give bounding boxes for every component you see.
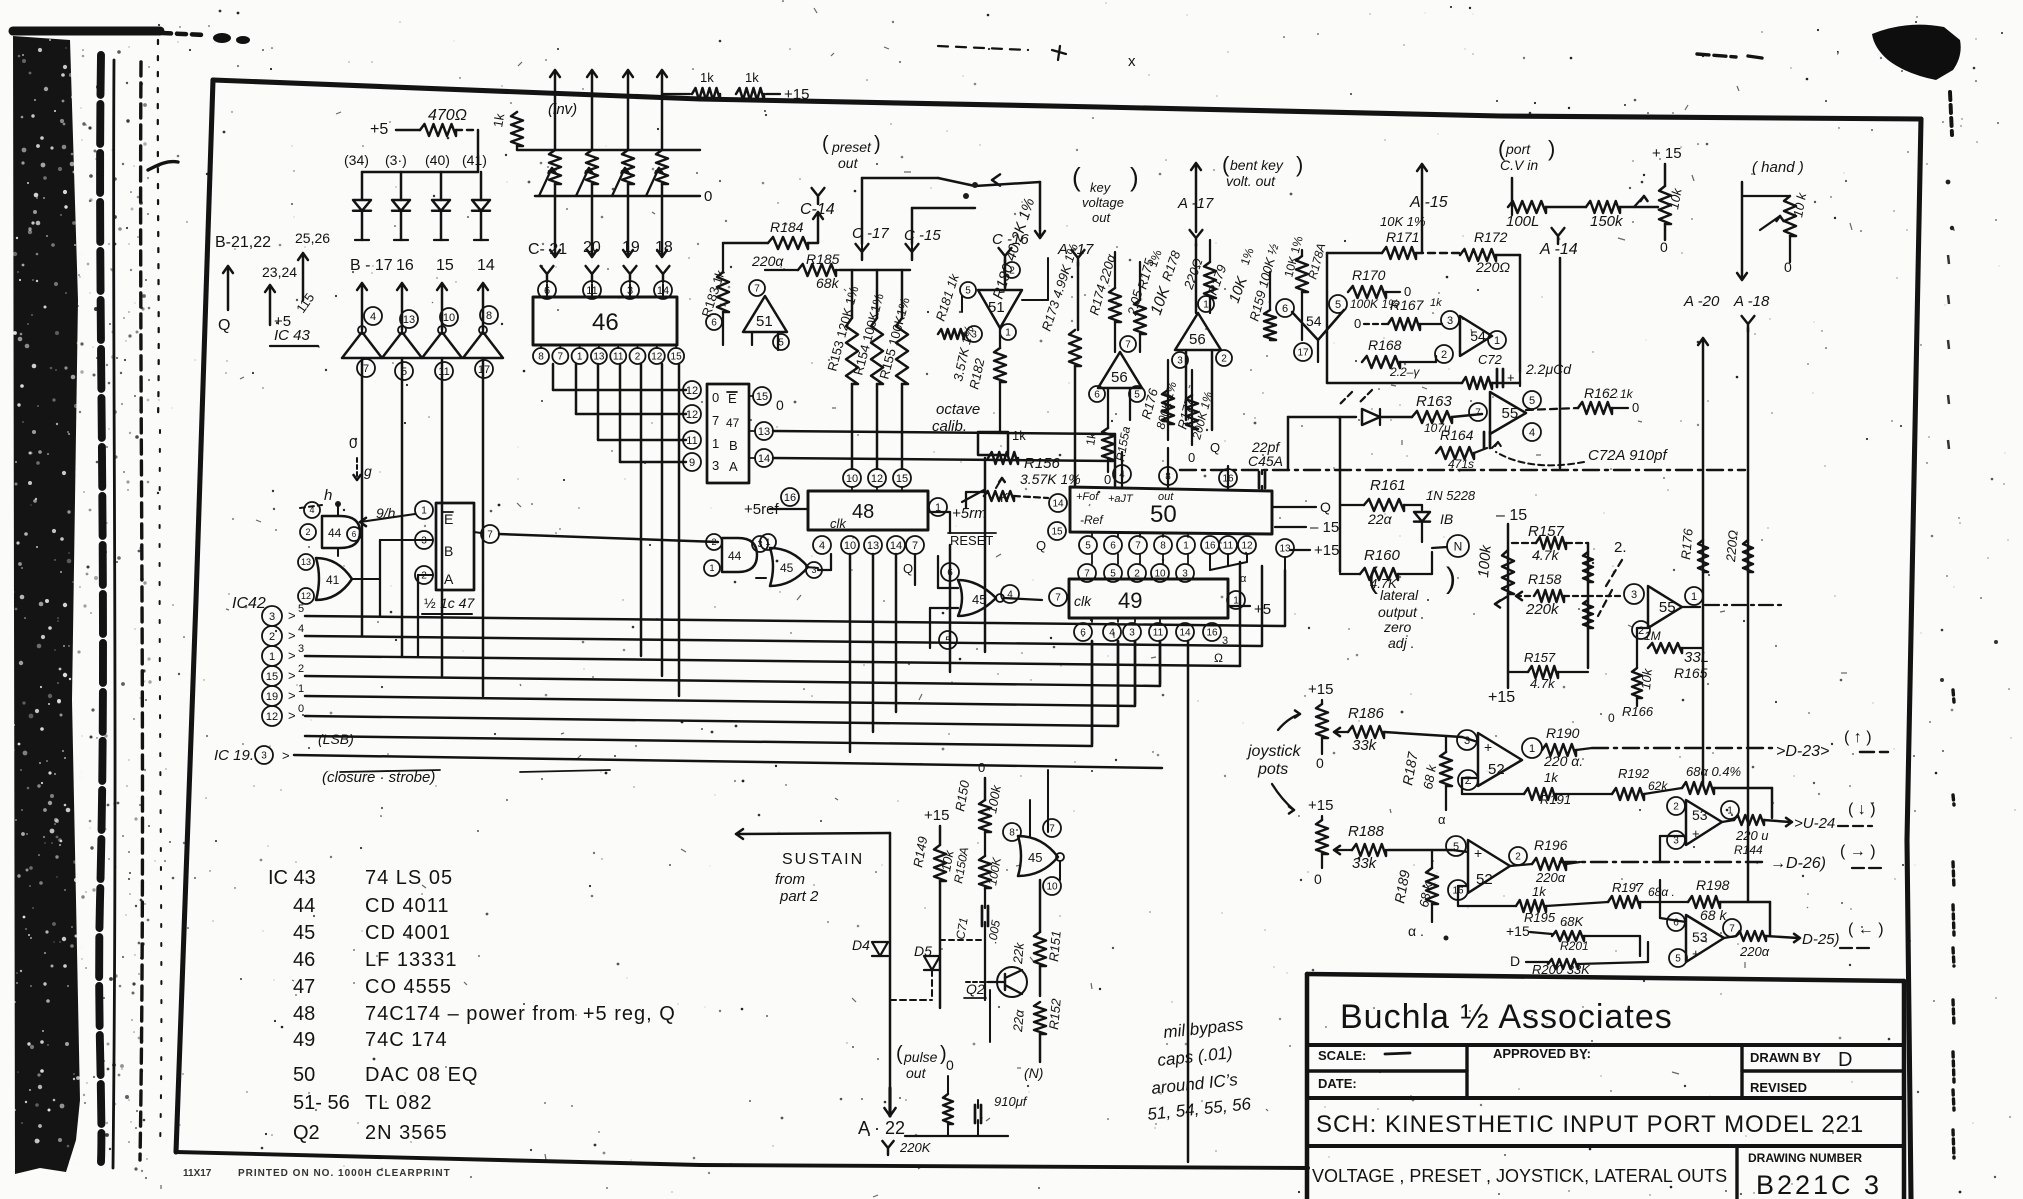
svg-text:key: key [1090, 180, 1112, 195]
svg-text:+: + [1474, 845, 1482, 861]
svg-text:14: 14 [890, 540, 902, 552]
svg-text:>: > [288, 608, 296, 623]
svg-text:6: 6 [711, 318, 717, 329]
svg-text:joystick: joystick [1246, 743, 1301, 760]
svg-text:48: 48 [852, 501, 874, 523]
svg-text:12: 12 [686, 409, 698, 421]
svg-text:53: 53 [1692, 807, 1708, 823]
svg-text:0: 0 [1316, 755, 1324, 771]
svg-text:R158: R158 [1528, 571, 1562, 587]
svg-text:7: 7 [558, 352, 564, 363]
svg-text:E: E [728, 391, 737, 406]
svg-text:68K: 68K [1560, 914, 1584, 929]
svg-text:74 LS 05: 74 LS 05 [365, 867, 453, 889]
svg-text:A: A [729, 459, 738, 474]
svg-text:CD 4011: CD 4011 [365, 895, 449, 917]
svg-text:45: 45 [972, 592, 986, 607]
svg-text:1k: 1k [700, 70, 714, 85]
svg-text:A: A [444, 571, 454, 587]
svg-text:α: α [1438, 812, 1446, 827]
svg-text:out: out [906, 1065, 927, 1081]
svg-text:11: 11 [1223, 541, 1234, 552]
svg-text:7: 7 [912, 540, 918, 552]
svg-text:+: + [1484, 739, 1492, 755]
svg-text:2: 2 [1009, 266, 1015, 277]
svg-text:TL 082: TL 082 [365, 1092, 433, 1114]
svg-text:0: 0 [1314, 871, 1322, 887]
svg-text:+aJT: +aJT [1108, 493, 1134, 505]
svg-text:1: 1 [577, 352, 583, 363]
svg-text:1: 1 [765, 537, 770, 547]
svg-text:46: 46 [592, 309, 619, 336]
svg-text:0: 0 [704, 188, 712, 205]
svg-text:22α: 22α [1367, 511, 1393, 527]
svg-text:220α: 220α [1535, 870, 1566, 885]
svg-text:5: 5 [298, 603, 304, 615]
svg-text:68 k: 68 k [1700, 907, 1727, 923]
svg-text:adj .: adj . [1388, 635, 1414, 651]
svg-text:74C174 – power from +5 reg, Q: 74C174 – power from +5 reg, Q [365, 1003, 676, 1025]
svg-text:B - 17: B - 17 [350, 257, 393, 274]
svg-text:2: 2 [1515, 852, 1521, 863]
svg-text:IC 43: IC 43 [268, 867, 316, 889]
svg-text:8: 8 [1009, 828, 1015, 839]
svg-text:clk: clk [830, 516, 847, 531]
svg-text:x: x [1128, 53, 1136, 70]
svg-text:): ) [1296, 152, 1303, 177]
svg-text:DATE:: DATE: [1318, 1076, 1357, 1091]
svg-text:68α 0.4%: 68α 0.4% [1686, 764, 1741, 779]
svg-text:6: 6 [947, 568, 953, 579]
svg-text:15: 15 [436, 257, 454, 274]
svg-text:8: 8 [538, 352, 544, 363]
svg-text:): ) [1548, 136, 1555, 161]
svg-text:14: 14 [758, 453, 770, 465]
svg-text:(LSB): (LSB) [318, 731, 354, 747]
svg-text:1: 1 [1727, 806, 1733, 817]
svg-text:15: 15 [671, 352, 683, 363]
svg-text:0: 0 [776, 397, 784, 413]
svg-text:A -18: A -18 [1733, 293, 1770, 310]
svg-text:>: > [288, 708, 296, 723]
svg-text:D-25): D-25) [1802, 931, 1840, 948]
svg-text:46: 46 [293, 949, 315, 971]
svg-text:(: ( [822, 133, 829, 155]
svg-text:Q: Q [1036, 538, 1046, 553]
svg-text:(inv): (inv) [548, 101, 577, 118]
svg-text:19: 19 [622, 239, 640, 256]
svg-text:( ↓ ): ( ↓ ) [1848, 801, 1876, 818]
svg-text:3: 3 [712, 458, 719, 473]
svg-text:3: 3 [1177, 356, 1183, 367]
svg-text:220K: 220K [899, 1140, 932, 1155]
svg-text:15: 15 [266, 671, 278, 683]
svg-text:2: 2 [711, 537, 716, 547]
svg-text:10: 10 [443, 312, 455, 324]
svg-text:– 15: – 15 [1496, 507, 1527, 524]
svg-text:4: 4 [1109, 628, 1115, 639]
svg-text:33L: 33L [1684, 649, 1709, 666]
svg-text:18: 18 [655, 239, 673, 256]
svg-text:D: D [1838, 1049, 1852, 1071]
svg-text:(: ( [1072, 162, 1081, 192]
svg-text:12: 12 [686, 385, 698, 397]
svg-text:2: 2 [1673, 802, 1679, 813]
svg-text:220 α.: 220 α. [1543, 753, 1583, 769]
svg-text:R162: R162 [1584, 385, 1618, 401]
svg-text:( hand ): ( hand ) [1752, 159, 1804, 176]
svg-text:50: 50 [293, 1064, 315, 1086]
svg-text:calib.: calib. [932, 418, 967, 435]
svg-text:33k: 33k [1352, 855, 1378, 872]
svg-text:1: 1 [298, 683, 304, 695]
svg-text:2: 2 [421, 571, 427, 582]
svg-text:2.2μCd: 2.2μCd [1525, 361, 1572, 377]
svg-text:55: 55 [1659, 599, 1676, 616]
svg-text:): ) [1446, 562, 1456, 595]
svg-text:12: 12 [651, 352, 663, 363]
svg-text:220α: 220α [751, 253, 784, 269]
svg-text:pulse: pulse [903, 1049, 938, 1065]
svg-text:13: 13 [301, 557, 311, 567]
svg-text:lateral: lateral [1380, 587, 1419, 603]
svg-text:7: 7 [1475, 408, 1481, 419]
svg-text:4.7k: 4.7k [1532, 547, 1559, 563]
svg-text:+15: +15 [784, 86, 809, 103]
svg-text:15: 15 [896, 473, 908, 485]
svg-text:11: 11 [613, 352, 624, 363]
svg-text:C72A 910pf: C72A 910pf [1588, 447, 1669, 464]
svg-text:(: ( [896, 1043, 903, 1065]
svg-text:5: 5 [1335, 299, 1341, 311]
svg-text:0: 0 [349, 435, 357, 452]
svg-text:50: 50 [1150, 501, 1177, 528]
svg-text:h: h [324, 487, 332, 504]
svg-text:11: 11 [686, 435, 697, 447]
svg-text:R190: R190 [1546, 725, 1580, 741]
svg-text:+: + [1692, 826, 1700, 841]
svg-text:13: 13 [403, 314, 415, 326]
svg-text:out: out [1092, 210, 1111, 225]
svg-text:3: 3 [1447, 315, 1453, 327]
svg-text:1N 5228: 1N 5228 [1426, 488, 1476, 503]
svg-text:0: 0 [1608, 711, 1615, 725]
svg-text:7: 7 [487, 530, 493, 541]
svg-text:0: 0 [712, 390, 719, 405]
svg-text:R197: R197 [1612, 880, 1644, 895]
svg-text:pots: pots [1257, 761, 1288, 778]
svg-text:α .: α . [1408, 923, 1424, 939]
svg-text:B: B [729, 438, 738, 453]
svg-text:>: > [288, 648, 296, 663]
svg-text:0: 0 [1632, 400, 1639, 415]
svg-text:C.V in: C.V in [1500, 157, 1538, 173]
svg-text:1: 1 [1494, 335, 1500, 347]
svg-text:0: 0 [1354, 316, 1361, 331]
svg-text:voltage: voltage [1082, 195, 1124, 210]
svg-text:220α: 220α [1739, 944, 1770, 959]
svg-text:(N): (N) [1024, 1065, 1043, 1081]
svg-text:C -17: C -17 [852, 225, 889, 242]
svg-text:2: 2 [1221, 354, 1227, 365]
svg-text:+Fof: +Fof [1076, 491, 1099, 503]
svg-text:Q: Q [1320, 499, 1331, 515]
svg-text:11: 11 [1153, 628, 1164, 639]
svg-text:3: 3 [421, 536, 427, 547]
svg-text:SUSTAIN: SUSTAIN [782, 851, 864, 868]
svg-text:470Ω: 470Ω [428, 107, 467, 124]
svg-text:53: 53 [1692, 929, 1708, 945]
svg-text:44: 44 [328, 526, 342, 540]
svg-text:9: 9 [689, 457, 695, 469]
svg-text:3: 3 [298, 643, 304, 655]
svg-text:3: 3 [261, 751, 267, 762]
svg-text:+15: +15 [1488, 689, 1515, 706]
svg-text:REVISED: REVISED [1750, 1080, 1807, 1095]
svg-text:16: 16 [1206, 628, 1218, 639]
svg-text:7: 7 [712, 413, 719, 428]
svg-text:4: 4 [1529, 427, 1535, 439]
svg-text:47: 47 [726, 416, 740, 430]
svg-text:16: 16 [396, 257, 414, 274]
svg-text:R171: R171 [1386, 229, 1419, 245]
svg-text:B: B [444, 543, 453, 559]
svg-text:7: 7 [1729, 924, 1735, 935]
svg-text:zero: zero [1383, 619, 1411, 635]
svg-text:49: 49 [1118, 588, 1142, 613]
svg-text:100k: 100k [1475, 543, 1495, 578]
svg-text:C -15: C -15 [904, 227, 941, 244]
svg-text:7: 7 [363, 363, 369, 375]
svg-text:0: 0 [978, 760, 985, 775]
svg-text:10k: 10k [1638, 667, 1655, 691]
svg-text:2: 2 [1441, 349, 1447, 361]
svg-text:5: 5 [1529, 395, 1535, 407]
svg-text:R164: R164 [1440, 427, 1474, 443]
svg-text:DRAWING NUMBER: DRAWING NUMBER [1748, 1151, 1862, 1165]
svg-text:output: output [1378, 604, 1418, 620]
svg-text:74C 174: 74C 174 [365, 1029, 448, 1051]
svg-text:APPROVED BY:: APPROVED BY: [1493, 1046, 1591, 1061]
svg-text:25,26: 25,26 [295, 230, 330, 246]
svg-text:’: ’ [1836, 49, 1840, 66]
svg-text:7: 7 [1125, 340, 1131, 351]
svg-text:3: 3 [269, 611, 275, 623]
svg-text:R157: R157 [1524, 650, 1556, 665]
svg-text:1: 1 [709, 563, 714, 573]
svg-text:5: 5 [1675, 954, 1681, 965]
svg-text:5: 5 [1134, 390, 1140, 401]
svg-text:6: 6 [1080, 628, 1086, 639]
svg-text:( → ): ( → ) [1840, 843, 1876, 860]
svg-text:+15: +15 [1314, 542, 1339, 559]
svg-text:2.: 2. [1614, 539, 1627, 556]
svg-text:910μf: 910μf [994, 1094, 1028, 1109]
svg-text:from: from [775, 871, 805, 888]
svg-text:( ↑ ): ( ↑ ) [1844, 729, 1872, 746]
svg-text:>: > [282, 748, 290, 763]
svg-text:2: 2 [635, 352, 641, 363]
svg-text:IC 43: IC 43 [274, 327, 311, 344]
svg-text:R188: R188 [1348, 823, 1385, 840]
svg-text:4: 4 [819, 540, 825, 552]
svg-text:51: 51 [988, 299, 1005, 316]
svg-text:>D-23>: >D-23> [1776, 743, 1829, 760]
svg-text:10: 10 [1046, 882, 1058, 893]
svg-text:2.2–γ: 2.2–γ [1389, 365, 1420, 379]
svg-text:R167: R167 [1390, 297, 1425, 313]
svg-text:R170: R170 [1352, 267, 1386, 283]
svg-text:A · 22: A · 22 [858, 1118, 905, 1138]
svg-text:7: 7 [1135, 541, 1141, 552]
svg-text:part 2: part 2 [779, 888, 819, 905]
svg-text:52: 52 [1476, 871, 1493, 888]
svg-text:20: 20 [583, 239, 601, 256]
svg-text:12: 12 [266, 711, 278, 723]
svg-text:0: 0 [1188, 450, 1195, 465]
svg-text:1: 1 [269, 651, 275, 663]
svg-text:47: 47 [293, 976, 315, 998]
svg-text:preset: preset [831, 139, 872, 155]
svg-text:3.57K 1%: 3.57K 1% [1020, 471, 1081, 487]
svg-text:56: 56 [1189, 331, 1206, 348]
svg-text:220Ω: 220Ω [1723, 529, 1741, 563]
svg-text:16: 16 [1204, 541, 1216, 552]
svg-text:CD 4001: CD 4001 [365, 922, 451, 944]
svg-text:Buchla ½ Associates: Buchla ½ Associates [1340, 998, 1673, 1036]
svg-text:( ← ): ( ← ) [1848, 921, 1884, 938]
svg-text:CO 4555: CO 4555 [365, 976, 452, 998]
svg-text:(3·): (3·) [385, 152, 407, 168]
svg-text:68k: 68k [816, 275, 840, 291]
svg-text:LF 13331: LF 13331 [365, 949, 458, 971]
svg-text:PRINTED ON NO. 1000H CLEARPRIN: PRINTED ON NO. 1000H CLEARPRINT [238, 1168, 451, 1179]
svg-text:>U-24: >U-24 [1794, 815, 1835, 832]
svg-text:+: + [1507, 370, 1515, 385]
svg-text:44: 44 [293, 895, 315, 917]
svg-text:2N 3565: 2N 3565 [365, 1122, 448, 1144]
svg-text:41: 41 [326, 573, 340, 587]
svg-text:1k: 1k [745, 70, 759, 85]
svg-text:Q2: Q2 [966, 981, 985, 997]
svg-text:56: 56 [1111, 369, 1128, 386]
svg-text:33k: 33k [1352, 737, 1378, 754]
svg-text:(: ( [1368, 562, 1378, 595]
svg-text:octave: octave [936, 401, 980, 418]
svg-text:150k: 150k [1590, 213, 1624, 230]
svg-text:2: 2 [269, 631, 275, 643]
svg-text:R196: R196 [1534, 837, 1568, 853]
svg-text:→D-26): →D-26) [1770, 855, 1826, 872]
svg-text:11X17: 11X17 [183, 1168, 212, 1179]
svg-text:R192: R192 [1618, 766, 1650, 781]
svg-text:R198: R198 [1696, 877, 1730, 893]
svg-text:1k: 1k [1532, 884, 1547, 899]
svg-text:0: 0 [946, 1057, 954, 1073]
svg-text:49: 49 [293, 1029, 315, 1051]
svg-text:(41): (41) [462, 152, 487, 168]
svg-text:15: 15 [756, 391, 768, 403]
svg-text:1: 1 [1529, 743, 1535, 755]
svg-text:R144: R144 [1734, 843, 1763, 857]
svg-text:14: 14 [1052, 499, 1064, 510]
svg-text:0: 0 [1784, 259, 1792, 275]
svg-text:8: 8 [1160, 541, 1166, 552]
svg-text:220 u: 220 u [1735, 828, 1769, 843]
svg-text:A -14: A -14 [1539, 241, 1578, 258]
svg-text:port: port [1505, 141, 1531, 157]
svg-text:A -15: A -15 [1409, 194, 1448, 211]
svg-text:-Ref: -Ref [1080, 513, 1104, 527]
svg-text:C72: C72 [1478, 352, 1503, 367]
svg-text:7: 7 [1049, 824, 1055, 835]
svg-text:1c 47: 1c 47 [440, 595, 475, 611]
svg-text:10: 10 [844, 540, 856, 552]
svg-text:R168: R168 [1368, 337, 1402, 353]
svg-text:51: 51 [756, 313, 773, 330]
svg-text:6: 6 [1282, 303, 1288, 315]
svg-text:Q: Q [218, 317, 230, 334]
svg-text:1k: 1k [1012, 428, 1026, 443]
svg-text:12: 12 [1241, 541, 1253, 552]
svg-text:C45A: C45A [1248, 453, 1283, 469]
svg-text:R184: R184 [770, 219, 804, 235]
svg-text:10K 1%: 10K 1% [1380, 214, 1426, 229]
svg-text:1: 1 [421, 506, 427, 517]
svg-text:>: > [288, 688, 296, 703]
svg-text:K: K [1000, 490, 1009, 505]
svg-text:R176: R176 [1678, 527, 1696, 560]
svg-text:220k: 220k [1525, 601, 1560, 618]
svg-text:45: 45 [780, 561, 794, 575]
svg-text:B-21,22: B-21,22 [215, 234, 271, 251]
svg-text:13: 13 [593, 352, 605, 363]
svg-text:7: 7 [754, 284, 760, 295]
svg-text:13: 13 [1279, 544, 1291, 555]
svg-text:IB: IB [1440, 511, 1453, 527]
svg-text:D: D [1510, 953, 1520, 969]
svg-text:IC42: IC42 [232, 595, 266, 612]
svg-text:1M: 1M [1644, 629, 1661, 643]
svg-text:19: 19 [266, 691, 278, 703]
svg-text:+15: +15 [1308, 797, 1333, 814]
svg-text:R200 33K: R200 33K [1532, 962, 1591, 977]
svg-text:10: 10 [846, 473, 858, 485]
svg-text:100L: 100L [1506, 213, 1539, 230]
svg-text:R161: R161 [1370, 477, 1406, 494]
svg-text:220Ω: 220Ω [1475, 259, 1510, 275]
svg-text:3: 3 [1129, 628, 1135, 639]
svg-text:1: 1 [712, 436, 719, 451]
svg-text:48: 48 [293, 1003, 315, 1025]
svg-text:1: 1 [1691, 591, 1697, 603]
svg-text:8: 8 [486, 310, 492, 322]
svg-text:Q2: Q2 [293, 1122, 320, 1144]
svg-text:volt. out: volt. out [1226, 173, 1276, 189]
svg-text:14: 14 [477, 257, 495, 274]
svg-text:13: 13 [867, 540, 879, 552]
svg-text:(34): (34) [344, 152, 369, 168]
svg-text:Q: Q [903, 561, 913, 576]
svg-text:DAC 08 EQ: DAC 08 EQ [365, 1064, 478, 1086]
svg-text:2: 2 [298, 663, 304, 675]
svg-text:3: 3 [1673, 836, 1679, 847]
svg-text:12: 12 [301, 591, 311, 601]
svg-text:51- 56: 51- 56 [293, 1092, 350, 1114]
svg-text:0: 0 [1660, 239, 1668, 255]
svg-text:6: 6 [1094, 390, 1100, 401]
svg-text:6: 6 [352, 530, 357, 539]
